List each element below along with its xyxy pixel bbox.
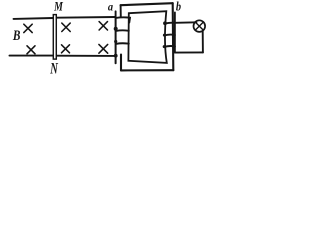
svg-text:N: N [49, 59, 58, 77]
wire bottom rail left segment [10, 55, 53, 57]
secondary coil turn rung 3 [164, 45, 175, 48]
secondary coil cusp dot 3 [163, 45, 166, 48]
secondary coil cusp dot 1 [163, 21, 167, 25]
field cross row1 c1 [24, 24, 32, 32]
primary coil junction dot 3 at bottom rail [114, 54, 118, 58]
wire lamp bottom horizontal [175, 51, 203, 53]
primary coil turn rung 1 [116, 17, 130, 22]
field cross row2 c1 [27, 46, 35, 54]
primary coil junction dot 2 [114, 40, 117, 43]
secondary coil turn rung 2 [164, 34, 175, 37]
wire top rail left segment [14, 17, 53, 20]
transformer core outer top edge [121, 3, 173, 5]
primary coil lead wire [115, 17, 117, 63]
primary coil junction dot 1 [114, 27, 118, 31]
field cross row1 c3 [99, 22, 107, 30]
secondary coil right side wire [174, 12, 176, 52]
conducting rod MN [53, 15, 56, 60]
field cross row2 c3 [99, 44, 108, 53]
svg-text:B: B [12, 27, 21, 44]
transformer core outer bottom edge [121, 69, 173, 71]
secondary coil turn rung 1 and wire to lamp [165, 22, 197, 23]
svg-text:a: a [108, 1, 114, 14]
transformer core outer left edge lower part [120, 55, 122, 71]
node a stub [115, 11, 117, 17]
lamp cross [195, 22, 203, 30]
wire top rail right segment [57, 16, 116, 19]
field cross row2 c2 [62, 45, 70, 53]
transformer core inner rectangle [128, 11, 166, 63]
primary coil turn rung 3 [116, 42, 129, 45]
wire bottom rail right segment [57, 55, 116, 57]
transformer core outer left edge upper part [120, 5, 122, 17]
svg-text:M: M [53, 1, 63, 15]
secondary coil cusp dot 2 [163, 34, 166, 37]
field cross row1 c2 [62, 23, 70, 31]
primary coil turn rung 2 [116, 29, 129, 32]
transformer core outer right edge [172, 3, 175, 70]
lamp circle [194, 20, 206, 32]
svg-text:b: b [176, 0, 181, 14]
wire lamp bottom stub [202, 31, 204, 53]
